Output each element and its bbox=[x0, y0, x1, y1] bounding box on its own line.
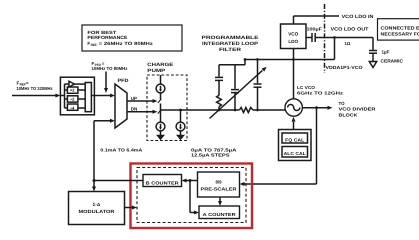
wire prescaler to B counter bbox=[182, 179, 198, 183]
current source I-down bbox=[156, 110, 165, 135]
svg-text:Σ-Δ: Σ-Δ bbox=[93, 202, 101, 207]
svg-text:TO: TO bbox=[339, 101, 346, 106]
resistor R2 bbox=[239, 108, 253, 113]
reference scaler block bbox=[60, 77, 94, 115]
svg-text:BLOCK: BLOCK bbox=[339, 112, 359, 117]
svg-text:PROGRAMMABLE: PROGRAMMABLE bbox=[202, 35, 259, 40]
current source I-bleed bbox=[176, 109, 185, 135]
divider /4 box bbox=[67, 104, 78, 111]
chip boundary line bbox=[324, 4, 326, 73]
dashed block divider bbox=[137, 168, 246, 223]
svg-text:12.5µA STEPS: 12.5µA STEPS bbox=[191, 152, 230, 157]
ground bbox=[156, 135, 165, 141]
svg-text:VCO LDO IN: VCO LDO IN bbox=[342, 14, 375, 19]
svg-text:×2: ×2 bbox=[70, 88, 75, 93]
mux bbox=[85, 83, 91, 112]
svg-text:PFD: PFD bbox=[118, 78, 130, 83]
ground bbox=[176, 135, 185, 141]
wire loop filter top rail bbox=[219, 64, 245, 66]
wire feedback to prescaler bbox=[240, 108, 317, 186]
svg-text:B COUNTER: B COUNTER bbox=[146, 180, 180, 185]
prescaler 8/9 bbox=[198, 172, 240, 197]
svg-text:CERAMIC: CERAMIC bbox=[381, 58, 404, 63]
wire B counter to PFD feedback bbox=[93, 119, 144, 182]
svg-text:= 26MHz TO 80MHz: = 26MHz TO 80MHz bbox=[99, 41, 154, 46]
svg-text:FILTER: FILTER bbox=[219, 47, 242, 52]
wire FREF input arrow bbox=[12, 94, 60, 98]
VCO LDO U2 bbox=[281, 24, 307, 49]
svg-text:6GHz TO 12GHz: 6GHz TO 12GHz bbox=[297, 91, 343, 96]
wire prescaler down to A counter bbox=[218, 197, 222, 206]
label bleed current range bbox=[191, 147, 237, 157]
node FREF input label bbox=[17, 81, 54, 91]
oscillator VCO bbox=[285, 85, 343, 116]
svg-text:LC VCO: LC VCO bbox=[297, 85, 316, 90]
svg-text:PRE-SCALER: PRE-SCALER bbox=[201, 186, 238, 191]
capacitor C2 bbox=[231, 65, 239, 112]
charge pump dashed box bbox=[147, 62, 187, 141]
svg-text:INTEGRATED LOOP: INTEGRATED LOOP bbox=[202, 41, 258, 46]
svg-text:VCO DIVIDER: VCO DIVIDER bbox=[339, 107, 377, 112]
highlight box N divider bbox=[131, 164, 253, 229]
wire modulator output bbox=[125, 206, 138, 210]
node VCO LDO OUT junction bbox=[333, 36, 336, 59]
capacitor C1 bbox=[215, 65, 223, 96]
wire FPFD arrow bbox=[104, 72, 108, 94]
label loop filter bbox=[202, 35, 259, 52]
wire DN output bbox=[127, 107, 158, 114]
PFD U1 bbox=[115, 78, 129, 128]
wire UP output bbox=[127, 96, 158, 103]
node FPFD label bbox=[92, 61, 129, 71]
svg-text:1µF: 1µF bbox=[382, 49, 390, 54]
current source I-up bbox=[156, 75, 165, 114]
wire junction to modulator bbox=[92, 181, 96, 192]
resistor R1 bbox=[217, 95, 222, 111]
sigma-delta modulator bbox=[69, 192, 125, 225]
svg-text:NECESSARY FOR: NECESSARY FOR bbox=[381, 31, 419, 36]
wire VCO LDO IN bbox=[294, 14, 375, 24]
node CP output bbox=[161, 109, 188, 111]
wire mux to PFD bbox=[91, 94, 115, 98]
svg-text:VCO: VCO bbox=[288, 32, 298, 37]
node feedback tap bbox=[315, 106, 318, 109]
wire prescaler to A counter via junction bbox=[190, 181, 199, 215]
note box FOR BEST PERFORMANCE bbox=[82, 25, 182, 51]
A counter bbox=[199, 206, 240, 219]
svg-text:FOR BEST: FOR BEST bbox=[87, 30, 116, 35]
capacitor 1uF bbox=[369, 38, 404, 64]
svg-text:MODULATOR: MODULATOR bbox=[79, 209, 116, 214]
capacitor 100uF bbox=[306, 26, 373, 42]
svg-text:10MHz TO 320MHz: 10MHz TO 320MHz bbox=[17, 86, 54, 91]
svg-text:LDO: LDO bbox=[288, 39, 298, 44]
svg-text:0.1mA TO 6.4mA: 0.1mA TO 6.4mA bbox=[100, 147, 142, 152]
svg-text:REF: REF bbox=[91, 43, 97, 47]
node LDO to VCO junction bbox=[292, 49, 295, 100]
svg-text:÷2: ÷2 bbox=[70, 97, 75, 102]
svg-text:CHARGE: CHARGE bbox=[147, 62, 173, 67]
variable arrow bbox=[210, 67, 267, 119]
calibration block bbox=[279, 130, 312, 161]
multiplier x2 box bbox=[67, 87, 78, 93]
svg-text:1Ω: 1Ω bbox=[345, 41, 351, 46]
svg-text:FQ CAL: FQ CAL bbox=[285, 138, 304, 143]
svg-text:PUMP: PUMP bbox=[147, 68, 165, 73]
ALC CAL box bbox=[282, 147, 308, 158]
svg-text:VCO LDO OUT: VCO LDO OUT bbox=[331, 26, 369, 31]
supply VDDA1P1-VCO bbox=[326, 62, 377, 71]
svg-text:÷4: ÷4 bbox=[70, 106, 75, 111]
note box connected externally bbox=[378, 19, 419, 40]
svg-text:10MHz TO 80MHz: 10MHz TO 80MHz bbox=[92, 66, 129, 71]
capacitor C3 bbox=[254, 58, 262, 111]
wire sources to mux bbox=[75, 84, 86, 108]
wire input bus bbox=[60, 84, 69, 108]
wire loop filter main line bbox=[187, 109, 286, 111]
svg-text:100µF: 100µF bbox=[307, 26, 323, 31]
svg-text:8/9: 8/9 bbox=[215, 179, 222, 184]
svg-text:PERFORMANCE: PERFORMANCE bbox=[87, 35, 127, 40]
FQ CAL box bbox=[282, 133, 308, 143]
svg-text:VDDA1P1-VCO: VDDA1P1-VCO bbox=[326, 65, 364, 70]
B counter bbox=[143, 175, 182, 187]
wire VCO cal arrow bbox=[292, 117, 296, 130]
svg-text:DN: DN bbox=[131, 107, 138, 112]
wire VCO output bbox=[302, 101, 376, 117]
svg-text:A COUNTER: A COUNTER bbox=[203, 212, 237, 217]
svg-text:ALC CAL: ALC CAL bbox=[284, 151, 306, 156]
divider /2 box bbox=[67, 96, 78, 102]
buffer amp bbox=[69, 81, 75, 87]
svg-text:CONNECTED EXT: CONNECTED EXT bbox=[381, 26, 419, 31]
